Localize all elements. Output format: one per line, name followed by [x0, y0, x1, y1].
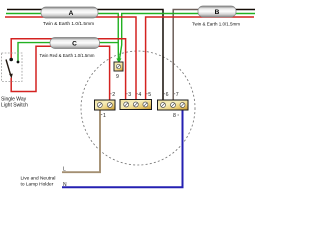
wire: neutral cable B (grey): [173, 10, 198, 101]
screw terminal 5: [143, 102, 148, 107]
screw terminal 7: [171, 103, 176, 108]
switch earth terminal dot: [17, 61, 20, 64]
svg-text:Twin & Earth 1.0/1.5mm: Twin & Earth 1.0/1.5mm: [43, 21, 94, 27]
switch lever: [6, 60, 11, 76]
earth terminal 9 block: [114, 62, 123, 71]
wire: live red cable B horizontal, drop to terminal 5: [146, 17, 254, 100]
cable A sheath: [41, 7, 98, 18]
screw terminal 1: [97, 103, 102, 108]
label 7: [174, 93, 175, 95]
wire: neutral black right of cable B: [217, 9, 255, 11]
svg-text:Light Switch: Light Switch: [1, 103, 28, 109]
svg-text:4: 4: [138, 92, 141, 98]
screw terminal 2: [107, 103, 112, 108]
wire: switch feed red from cable C to terminal 3: [50, 39, 126, 100]
wire: switch feed red left of cable C down to switch: [11, 39, 50, 59]
svg-text:to Lamp Holder: to Lamp Holder: [21, 182, 54, 188]
cable B sheath: [198, 6, 236, 17]
svg-text:Live and Neutral: Live and Neutral: [21, 175, 56, 181]
label 4: [137, 93, 138, 95]
switch common terminal dot: [9, 58, 13, 62]
svg-text:A: A: [69, 10, 74, 17]
label 2: [110, 93, 111, 95]
wire: earth green left horizontal into vertical drop: [6, 14, 118, 61]
svg-text:1: 1: [103, 113, 106, 119]
svg-text:Twin & Earth 1.0/1.5mm: Twin & Earth 1.0/1.5mm: [192, 21, 240, 26]
terminal block 6-7-8: [158, 100, 189, 110]
wire: live red cable A horizontal, drop to terminal 4: [5, 17, 136, 100]
svg-text:2: 2: [112, 92, 115, 98]
svg-text:C: C: [72, 40, 77, 47]
wire: earth green right horizontal into vertical drop: [119, 14, 255, 61]
label 1: [101, 114, 103, 116]
screw terminal 3: [124, 102, 129, 107]
single way light switch dashed box: [2, 53, 23, 82]
wire: earth green of cable C: [18, 43, 118, 61]
svg-text:5: 5: [148, 92, 151, 98]
svg-text:8: 8: [173, 113, 176, 119]
ceiling rose dashed outline: [81, 51, 195, 165]
screw terminal 4: [133, 102, 138, 107]
earth arrowhead into terminal 9: [116, 58, 121, 63]
wire: blue flex neutral to lamp holder: [62, 110, 183, 187]
svg-text:L: L: [63, 167, 66, 173]
svg-text:7: 7: [176, 92, 179, 98]
wire: neutral black cable A horizontal: [7, 10, 163, 101]
terminal block 3-4-5: [120, 100, 152, 110]
screw terminal 6: [161, 103, 166, 108]
svg-text:B: B: [215, 9, 220, 16]
svg-text:3: 3: [128, 92, 131, 98]
wire: switched live red below switch U-loop: [11, 46, 50, 91]
label 6: [164, 93, 165, 95]
terminal block 1-2: [95, 100, 116, 110]
svg-text:N: N: [63, 182, 67, 188]
svg-text:6: 6: [166, 92, 169, 98]
terminal 9 screw: [116, 64, 120, 68]
screw terminal 8: [180, 103, 185, 108]
switch lever arrowhead: [9, 74, 13, 79]
wire: switched live red from cable C to terminal 2: [50, 46, 110, 100]
wire: brown flex live to lamp holder: [62, 110, 100, 172]
svg-text:Twin Red & Earth 1.0/1.5mm: Twin Red & Earth 1.0/1.5mm: [40, 53, 95, 58]
cable C sheath: [50, 38, 100, 49]
label 5: [146, 93, 147, 95]
svg-text:9: 9: [116, 74, 119, 80]
label 3: [126, 93, 127, 95]
